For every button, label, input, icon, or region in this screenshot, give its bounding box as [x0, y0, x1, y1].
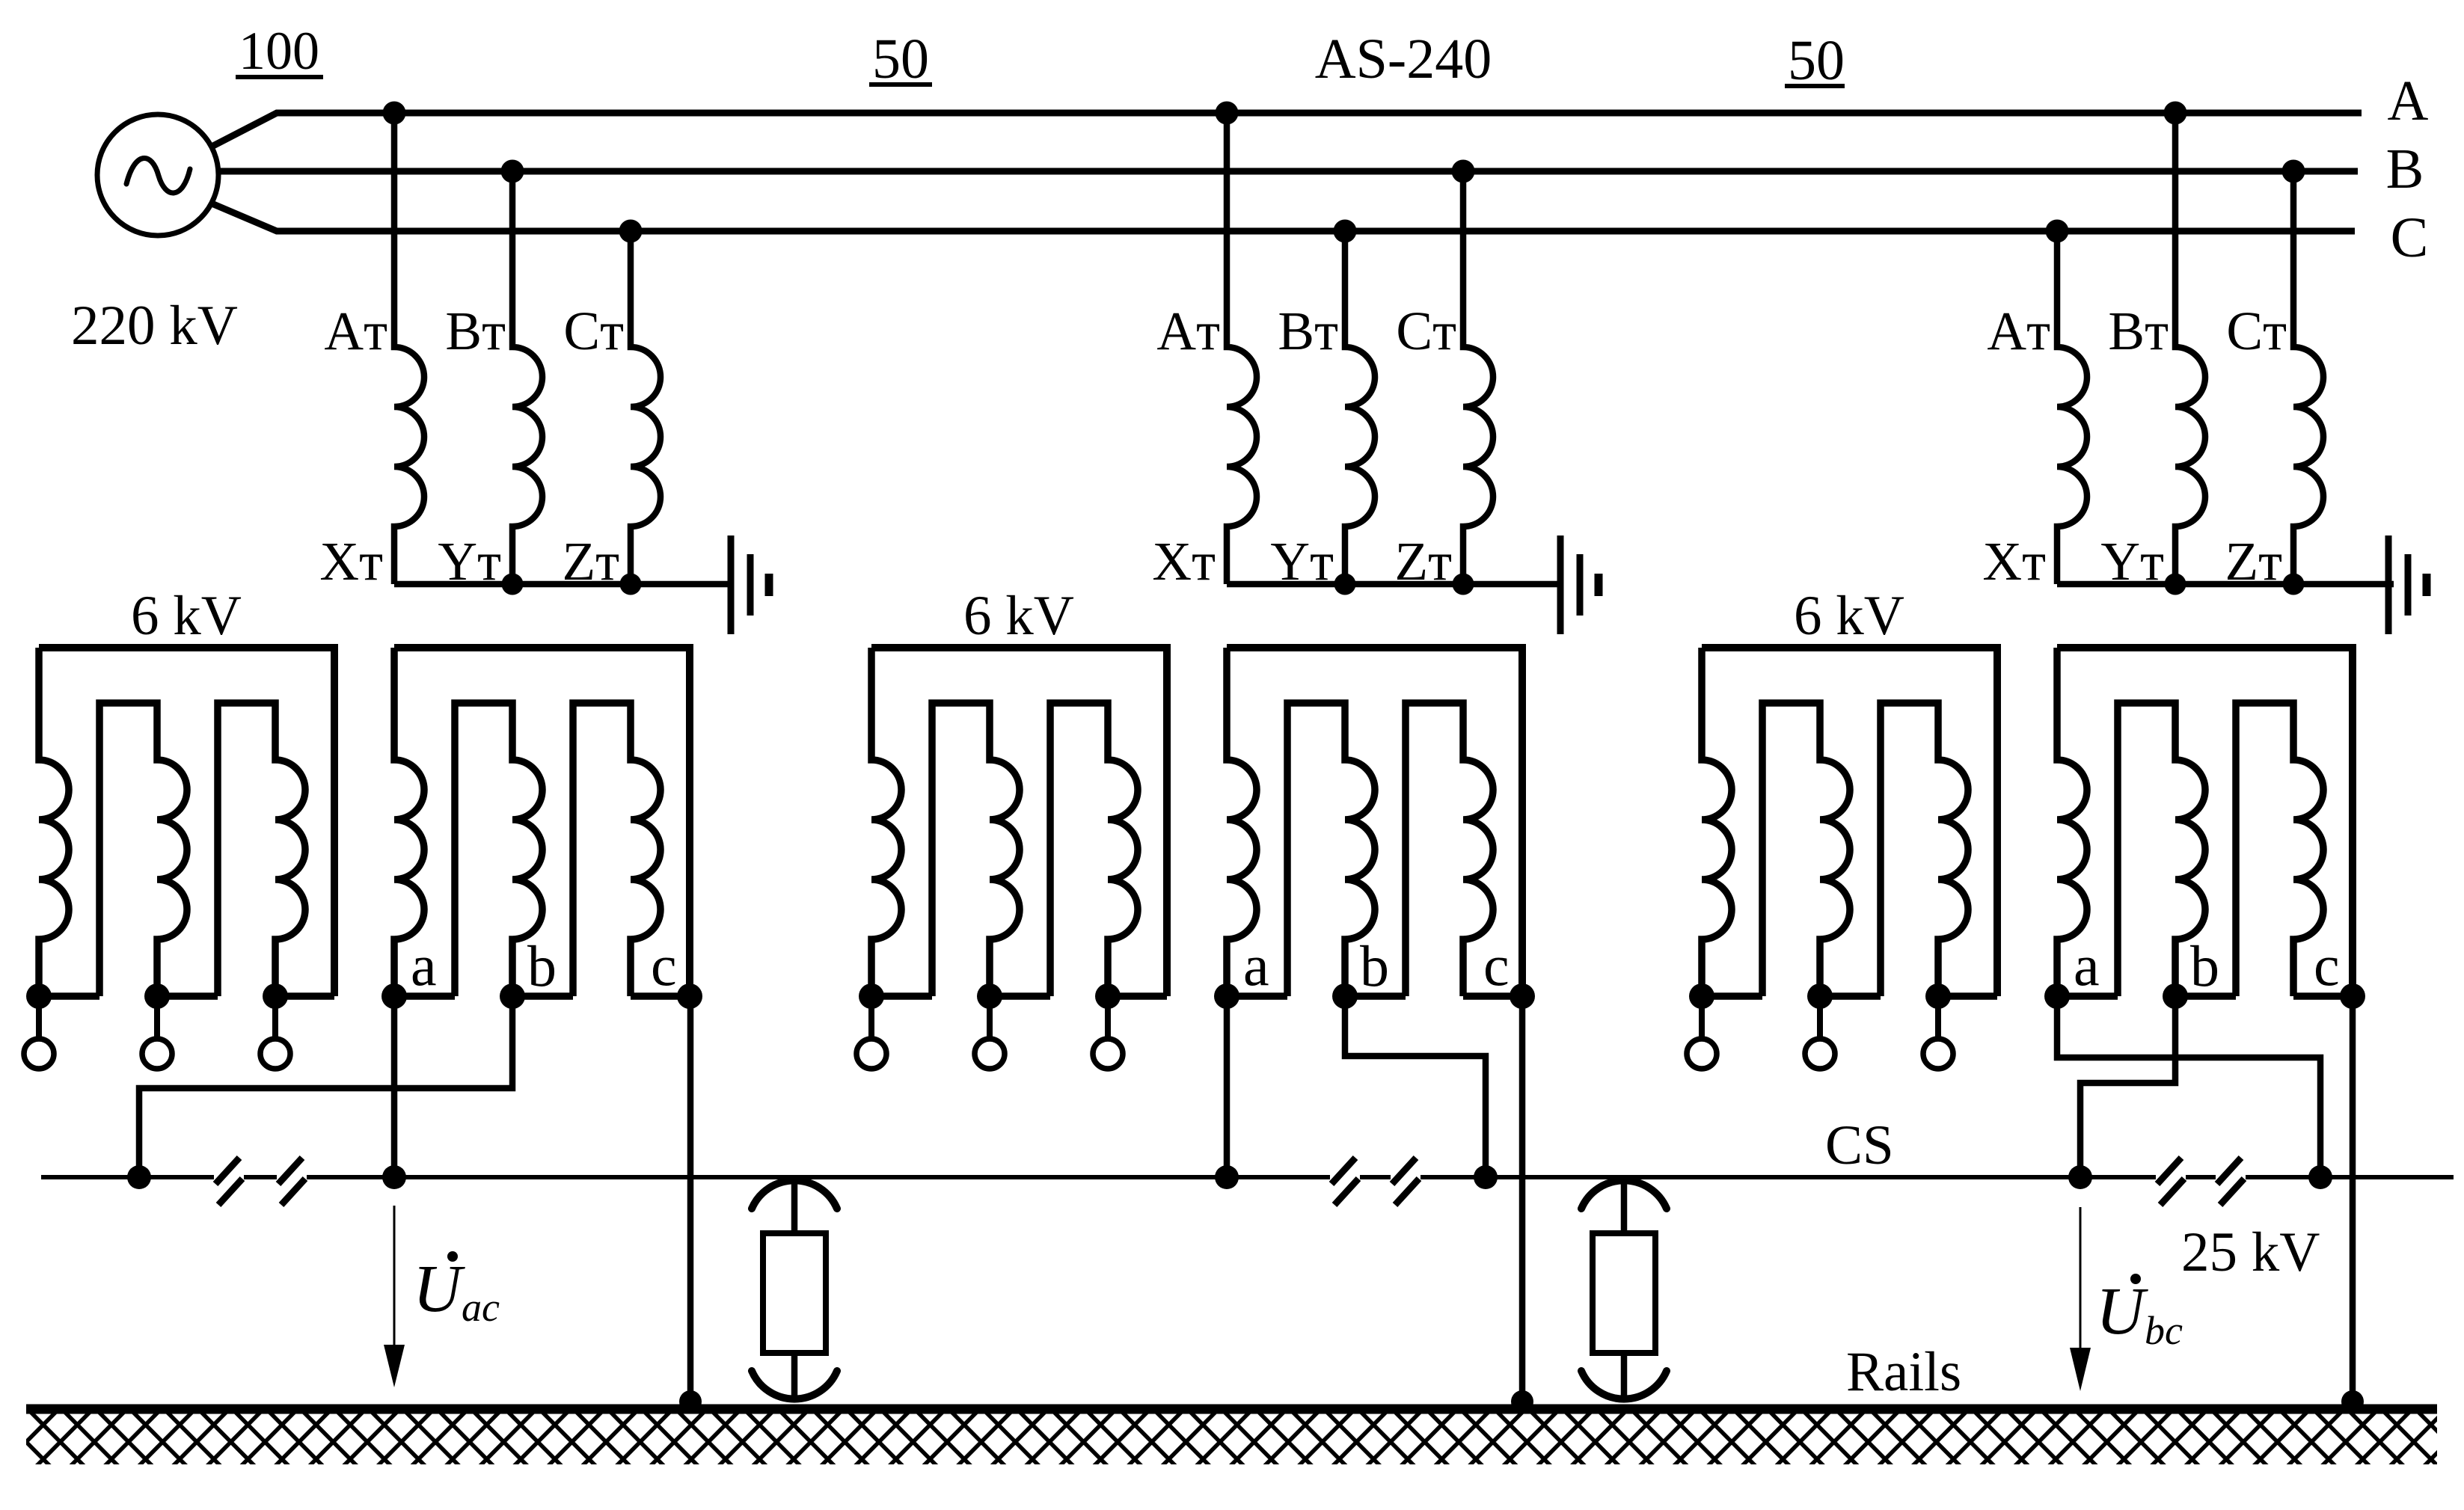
- svg-text:Yт: Yт: [2100, 531, 2164, 592]
- svg-text:Xт: Xт: [1152, 531, 1216, 592]
- svg-text:b: b: [2190, 933, 2219, 998]
- svg-text:Aт: Aт: [324, 301, 387, 361]
- svg-text:Xт: Xт: [1982, 531, 2046, 592]
- svg-text:Zт: Zт: [2225, 531, 2283, 592]
- svg-text:Cт: Cт: [2226, 301, 2287, 361]
- svg-text:a: a: [411, 933, 437, 998]
- svg-text:Bт: Bт: [1278, 301, 1338, 361]
- svg-text:25 kV: 25 kV: [2181, 1221, 2320, 1283]
- svg-text:a: a: [2074, 933, 2100, 998]
- svg-text:Bт: Bт: [2108, 301, 2169, 361]
- svg-text:AS-240: AS-240: [1315, 28, 1492, 90]
- svg-text:a: a: [1243, 933, 1269, 998]
- svg-text:ac: ac: [462, 1285, 500, 1330]
- svg-text:Zт: Zт: [563, 531, 620, 592]
- svg-text:50: 50: [1788, 29, 1845, 92]
- svg-text:bc: bc: [2145, 1308, 2183, 1353]
- svg-text:c: c: [1483, 933, 1510, 998]
- svg-text:CS: CS: [1825, 1114, 1894, 1176]
- svg-text:c: c: [651, 933, 677, 998]
- svg-text:Aт: Aт: [1987, 301, 2050, 361]
- svg-text:100: 100: [239, 21, 319, 81]
- svg-text:Yт: Yт: [1270, 531, 1334, 592]
- svg-text:Cт: Cт: [563, 301, 624, 361]
- svg-text:Zт: Zт: [1395, 531, 1453, 592]
- svg-text:c: c: [2314, 933, 2340, 998]
- svg-text:Cт: Cт: [1396, 301, 1456, 361]
- svg-text:Yт: Yт: [438, 531, 501, 592]
- svg-text:U: U: [2096, 1274, 2148, 1348]
- svg-text:C: C: [2391, 206, 2429, 269]
- svg-text:6 kV: 6 kV: [1794, 585, 1904, 647]
- svg-text:Xт: Xт: [319, 531, 383, 592]
- svg-text:U: U: [413, 1252, 465, 1326]
- svg-text:220 kV: 220 kV: [71, 295, 238, 357]
- svg-text:50: 50: [872, 28, 929, 90]
- svg-text:A: A: [2388, 70, 2429, 132]
- svg-text:b: b: [1360, 933, 1389, 998]
- svg-text:6 kV: 6 kV: [963, 585, 1074, 647]
- svg-text:B: B: [2386, 138, 2424, 200]
- svg-text:Bт: Bт: [445, 301, 506, 361]
- svg-text:6 kV: 6 kV: [131, 585, 242, 647]
- svg-text:Rails: Rails: [1846, 1341, 1961, 1403]
- svg-text:Aт: Aт: [1156, 301, 1220, 361]
- svg-text:b: b: [527, 933, 557, 998]
